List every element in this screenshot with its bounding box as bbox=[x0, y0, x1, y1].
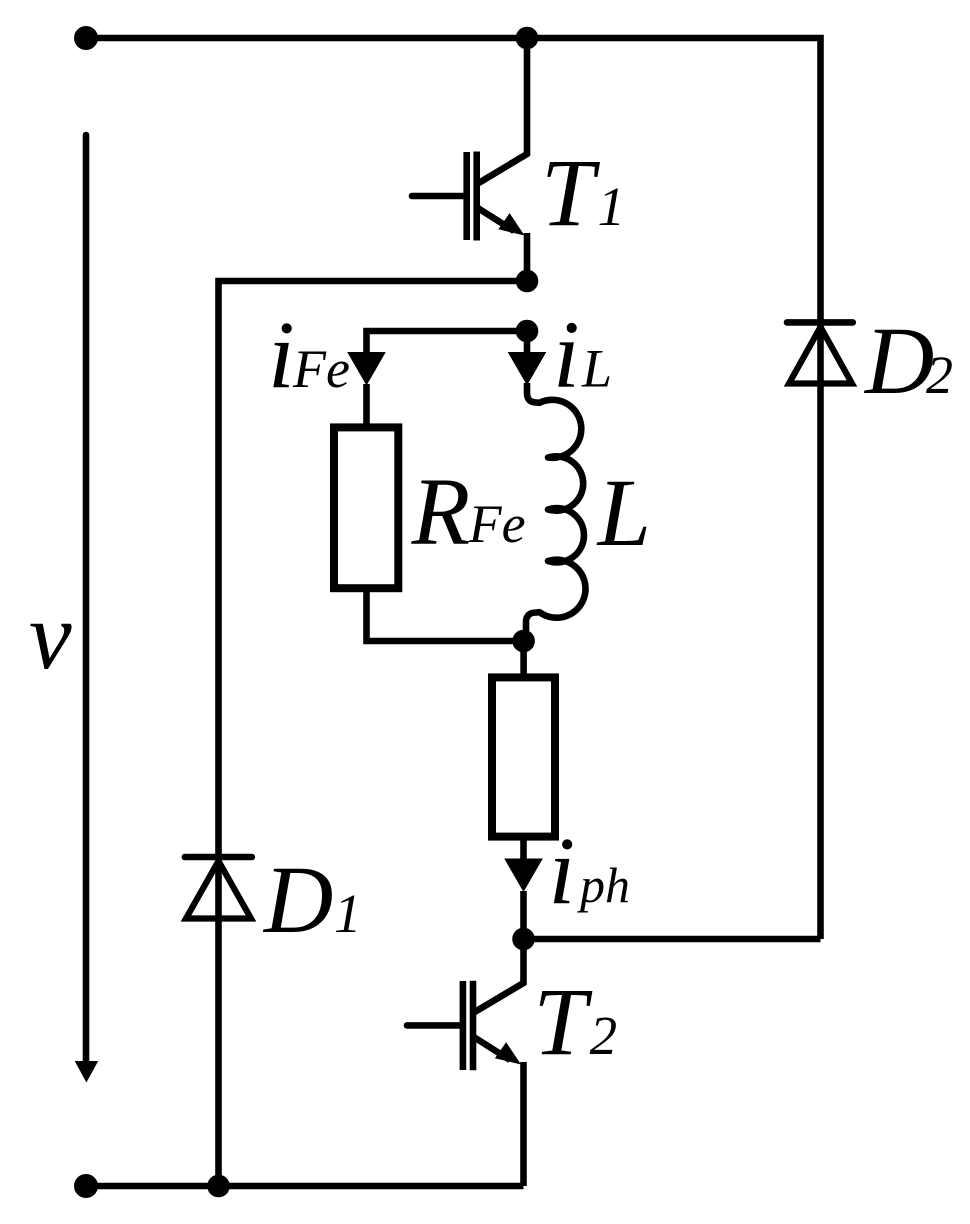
resistor RFe bbox=[334, 427, 398, 588]
svg-text:i: i bbox=[268, 301, 295, 408]
svg-text:i: i bbox=[549, 817, 576, 924]
wire node C to resistor bbox=[520, 641, 527, 674]
svg-text:2: 2 bbox=[926, 345, 953, 405]
resistor (phase) bbox=[492, 677, 555, 836]
svg-text:v: v bbox=[29, 582, 72, 689]
label T1 bbox=[541, 139, 625, 246]
label iL bbox=[553, 301, 612, 408]
node A below T1 bbox=[516, 270, 539, 293]
label D1 bbox=[262, 846, 362, 953]
wire node D to right rail bbox=[524, 936, 821, 943]
label T2 bbox=[533, 968, 617, 1075]
transistor T2 bbox=[407, 939, 524, 1186]
label iFe bbox=[268, 301, 350, 408]
svg-text:2: 2 bbox=[590, 1005, 618, 1066]
svg-text:D: D bbox=[863, 307, 934, 414]
node top-center junction bbox=[516, 27, 539, 50]
label iph bbox=[549, 817, 631, 924]
svg-text:Fe: Fe bbox=[468, 494, 526, 554]
svg-text:R: R bbox=[411, 458, 471, 565]
label D2 bbox=[863, 307, 953, 414]
arrow iph bbox=[504, 859, 543, 893]
node top-left terminal bbox=[74, 26, 98, 50]
svg-text:1: 1 bbox=[598, 176, 626, 237]
wire iph arrow to node D bbox=[520, 891, 527, 939]
arrow iL bbox=[508, 352, 547, 386]
wire resistor to iph arrow bbox=[520, 840, 527, 860]
wire node B to iFe branch bbox=[367, 331, 528, 353]
node D bbox=[512, 928, 535, 951]
node C bbox=[512, 630, 535, 653]
svg-text:D: D bbox=[262, 846, 333, 953]
transistor T1 bbox=[412, 38, 527, 281]
svg-text:T: T bbox=[533, 968, 593, 1075]
arrow v bbox=[75, 135, 99, 1083]
node B bbox=[516, 320, 539, 343]
inductor L bbox=[526, 383, 586, 641]
svg-text:L: L bbox=[581, 339, 612, 399]
wire RFe bottom to node C bbox=[367, 591, 524, 641]
label RFe bbox=[411, 458, 526, 565]
wire from node A to left vertical rail bbox=[219, 281, 528, 1186]
wire top rail and right side bbox=[86, 38, 821, 939]
svg-text:T: T bbox=[541, 139, 601, 246]
arrow iFe bbox=[347, 352, 386, 386]
svg-text:i: i bbox=[553, 301, 580, 408]
diode D2 bbox=[787, 322, 853, 383]
wire node B to iL arrow bbox=[524, 331, 531, 353]
svg-text:1: 1 bbox=[334, 883, 362, 944]
svg-text:L: L bbox=[596, 459, 651, 566]
svg-text:Fe: Fe bbox=[292, 339, 350, 399]
wire arrow to RFe bbox=[363, 384, 370, 424]
node E bottom junction bbox=[207, 1175, 230, 1198]
wire bottom rail bbox=[86, 1183, 524, 1190]
svg-text:ph: ph bbox=[577, 857, 630, 913]
node bottom-left terminal bbox=[74, 1174, 98, 1198]
diode D1 bbox=[185, 857, 252, 919]
